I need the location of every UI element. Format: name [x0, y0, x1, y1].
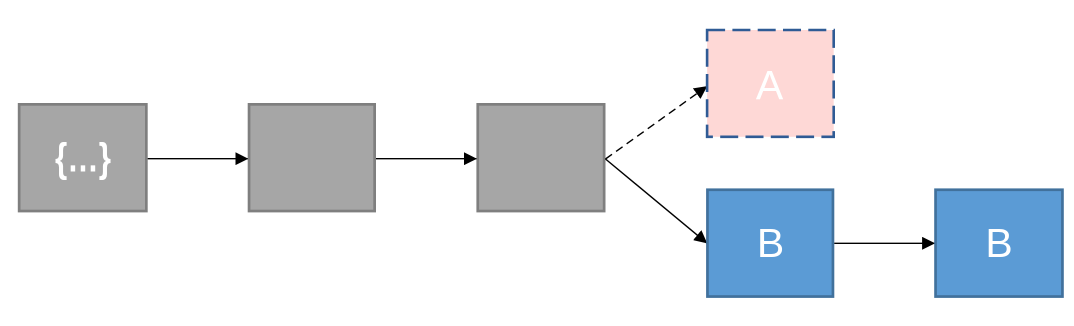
box B1 (blue) [707, 190, 833, 297]
svg-text:B: B [985, 220, 1012, 266]
wire: box2 to box3 arrow [376, 158, 477, 160]
wire: dashed arrow box3 to box A [606, 86, 708, 159]
wire: box1 to box2 arrow [148, 158, 248, 160]
box B2 (blue) [936, 190, 1063, 297]
box 3 (gray, empty) [478, 104, 604, 211]
wire: solid arrow box3 to box B1 [606, 159, 708, 243]
wire: B1 to B2 arrow [834, 242, 935, 244]
box 1 (gray, "{…}") [19, 104, 146, 211]
svg-text:A: A [756, 62, 784, 108]
svg-text:B: B [757, 220, 784, 266]
box A (pink, dashed blue border) [707, 30, 834, 137]
box 2 (gray, empty) [249, 104, 375, 211]
svg-text:{…}: {…} [55, 135, 111, 181]
